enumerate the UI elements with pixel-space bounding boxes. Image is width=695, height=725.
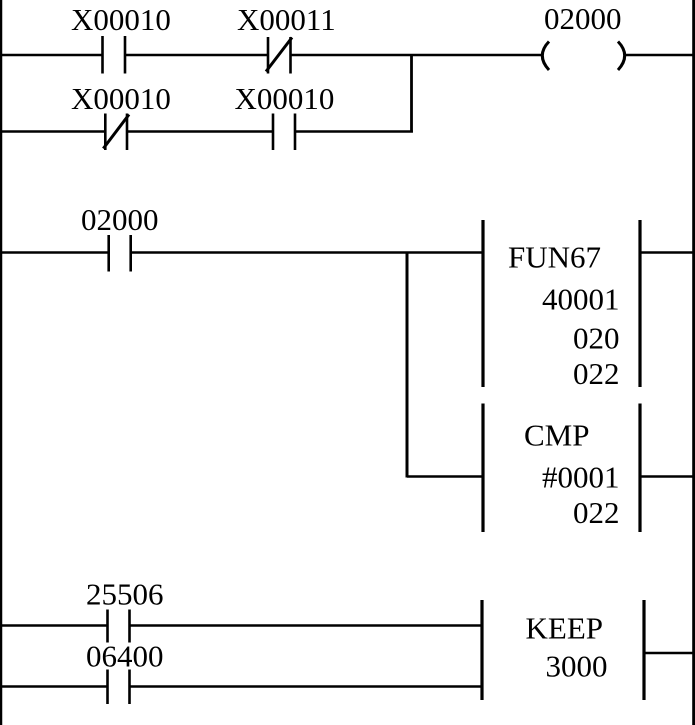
wire CMP feed [407, 475, 483, 478]
wire branch vertical rung1-rung2 [410, 54, 413, 133]
wire rung1 seg4 [625, 54, 695, 57]
svg-text:020: 020 [573, 321, 620, 356]
svg-text:#0001: #0001 [542, 460, 620, 495]
wire keep-rung bottom seg2 [130, 685, 483, 688]
wire rung1 seg3 [291, 54, 543, 57]
svg-text:022: 022 [573, 495, 620, 530]
svg-text:FUN67: FUN67 [508, 240, 601, 275]
svg-text:3000: 3000 [546, 649, 608, 684]
left power rail [0, 0, 2, 725]
block KEEP left bar [480, 600, 483, 700]
svg-text:40001: 40001 [542, 282, 620, 317]
block CMP left bar [481, 404, 484, 533]
block FUN67 left bar [481, 220, 484, 387]
wire keep-rung bottom seg1 [0, 685, 108, 688]
svg-text:25506: 25506 [86, 577, 164, 612]
svg-text:X00010: X00010 [235, 81, 335, 116]
contact X00010 rung1 (NO) [103, 36, 126, 74]
contact X00011 rung1 (NC) [266, 37, 292, 74]
coil 02000 [542, 42, 624, 71]
svg-text:KEEP: KEEP [526, 611, 604, 646]
wire branch vertical rung3-CMP [406, 252, 409, 478]
contact 02000 rung3 (NO) [109, 235, 131, 272]
wire rung3 seg2 [131, 251, 483, 254]
wire keep-rung top seg1 [0, 624, 108, 627]
wire rung2 seg1 [0, 130, 105, 133]
block CMP right bar [638, 404, 641, 533]
wire KEEP output [644, 652, 695, 655]
contact 06400 (NO) [108, 670, 130, 705]
svg-text:02000: 02000 [544, 1, 622, 36]
wire rung1 seg2 [125, 54, 268, 57]
wire FUN67 output [640, 251, 695, 254]
wire rung1 seg1 [0, 54, 103, 57]
right power rail [692, 0, 695, 725]
block FUN67 right bar [638, 220, 641, 387]
block KEEP right bar [642, 600, 645, 700]
wire rung2 seg2 [127, 130, 273, 133]
contact 25506 (NO) [108, 610, 130, 643]
svg-text:CMP: CMP [524, 418, 589, 453]
svg-text:06400: 06400 [86, 639, 164, 674]
contact X00010 rung2 (NO) [273, 114, 295, 151]
svg-text:022: 022 [573, 356, 620, 391]
svg-text:X00010: X00010 [71, 2, 171, 37]
wire rung3 seg1 [0, 251, 109, 254]
wire rung2 seg3 [295, 130, 413, 133]
svg-text:X00011: X00011 [237, 2, 336, 37]
wire CMP output [640, 475, 695, 478]
svg-text:02000: 02000 [81, 202, 159, 237]
svg-text:X00010: X00010 [71, 81, 171, 116]
contact X00010 rung2 (NC) [103, 114, 129, 151]
wire keep-rung top seg2 [130, 624, 483, 627]
